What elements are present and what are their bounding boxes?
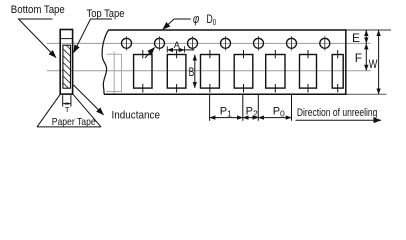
tape right edge (345, 29, 347, 95)
svg-text:B: B (189, 65, 195, 79)
Bottom Tape leader underline (19, 19, 57, 58)
pocket 7 (332, 55, 343, 89)
pocket 5 (266, 55, 285, 89)
dimension W (378, 30, 380, 94)
bottom edge extension line (346, 93, 386, 95)
side view inner line (60, 38, 72, 40)
tape bottom edge (104, 93, 346, 95)
tear (break) curve (102, 30, 108, 94)
dimension P2 (243, 117, 258, 119)
ghost torn pocket (106, 54, 122, 91)
sprocket hole 2 (155, 38, 165, 48)
pocket 4 (234, 55, 253, 89)
svg-text:D0: D0 (207, 14, 217, 27)
svg-text:T: T (65, 105, 70, 114)
paper tape hatched section (63, 45, 71, 88)
top edge extension line (346, 29, 391, 31)
sprocket hole 5 (254, 38, 264, 48)
phi D0 leader (163, 19, 191, 29)
svg-text:Direction of unreeling: Direction of unreeling (297, 107, 378, 119)
leader pocket to sprocket hole (145, 47, 155, 58)
dimension P1 (210, 117, 243, 119)
pocket centerline (47, 70, 371, 72)
Paper Tape left leader (37, 94, 60, 127)
tape top edge (108, 29, 346, 31)
svg-text:φ: φ (193, 11, 200, 26)
pocket 6 (300, 55, 317, 89)
svg-text:P0: P0 (273, 105, 285, 118)
pocket 2 (167, 55, 186, 89)
svg-text:P1: P1 (220, 105, 232, 118)
sprocket hole 1 (122, 38, 132, 48)
svg-text:W: W (369, 57, 378, 71)
svg-text:P2: P2 (246, 105, 258, 118)
sprocket hole 4 (221, 38, 231, 48)
pocket 1 (134, 55, 152, 89)
dimension E (365, 30, 367, 43)
dimension B (194, 55, 196, 88)
Top Tape leader (74, 19, 112, 53)
sprocket hole 6 (287, 38, 297, 48)
direction arrow (296, 119, 382, 121)
dimension T extension bars (62, 95, 64, 106)
side view outer rect (60, 30, 72, 95)
Paper Tape leader underline (37, 126, 101, 128)
sprocket hole 7 (320, 38, 330, 48)
svg-text:Top Tape: Top Tape (87, 8, 125, 20)
svg-text:F: F (355, 51, 362, 65)
Inductance leader (74, 85, 104, 115)
svg-text:E: E (352, 31, 360, 45)
P dimension extension bars (209, 94, 211, 121)
dimension F (365, 44, 367, 71)
svg-text:Inductance: Inductance (112, 109, 161, 121)
svg-text:Paper Tape: Paper Tape (52, 116, 96, 128)
Paper Tape right leader (73, 94, 101, 127)
dimension A (166, 46, 168, 52)
dimension P0 (258, 117, 291, 119)
svg-text:Bottom Tape: Bottom Tape (11, 4, 65, 16)
dimension T arrows (63, 103, 70, 105)
svg-text:A: A (174, 40, 180, 50)
sprocket-hole centerline (47, 42, 371, 44)
ghost pocket center tick (113, 52, 115, 94)
pocket 3 (201, 55, 220, 89)
sprocket hole 3 (188, 38, 198, 48)
